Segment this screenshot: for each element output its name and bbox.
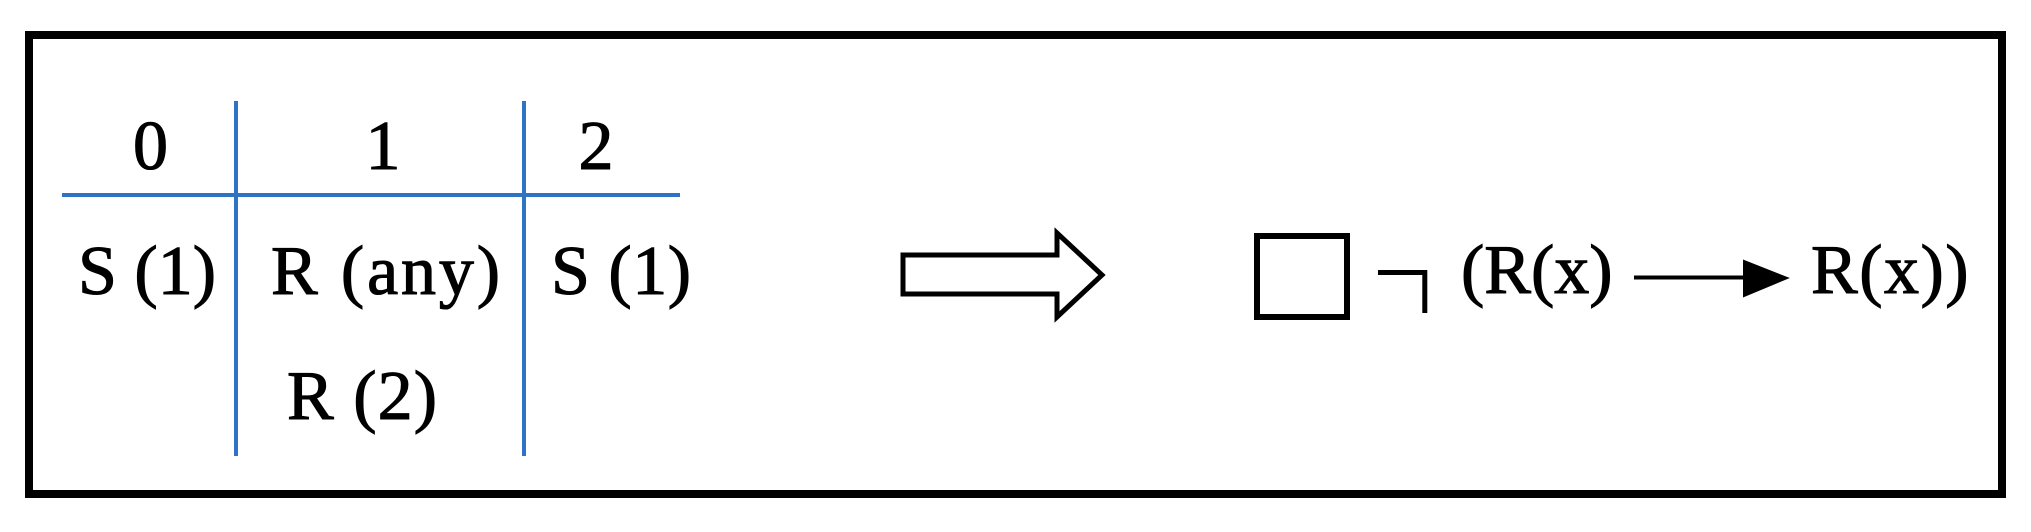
block arrow (implication)	[903, 233, 1102, 317]
svg-text:R (any): R (any)	[271, 233, 500, 310]
modal box operator	[1257, 236, 1347, 317]
svg-text:1: 1	[366, 108, 401, 185]
svg-text:R (2): R (2)	[287, 358, 437, 435]
svg-text:(R(x): (R(x)	[1461, 232, 1613, 309]
svg-text:2: 2	[579, 108, 614, 185]
implication arrow head	[1743, 260, 1790, 298]
table vertical blue line 2	[522, 101, 526, 456]
svg-text:R(x)): R(x))	[1811, 232, 1969, 309]
table vertical blue line 1	[234, 101, 238, 456]
svg-text:S (1): S (1)	[551, 233, 691, 310]
negation sign	[1378, 273, 1425, 314]
svg-text:0: 0	[133, 108, 168, 185]
table horizontal blue line	[62, 193, 680, 197]
svg-text:S (1): S (1)	[78, 233, 216, 310]
implication arrow shaft	[1634, 276, 1752, 280]
